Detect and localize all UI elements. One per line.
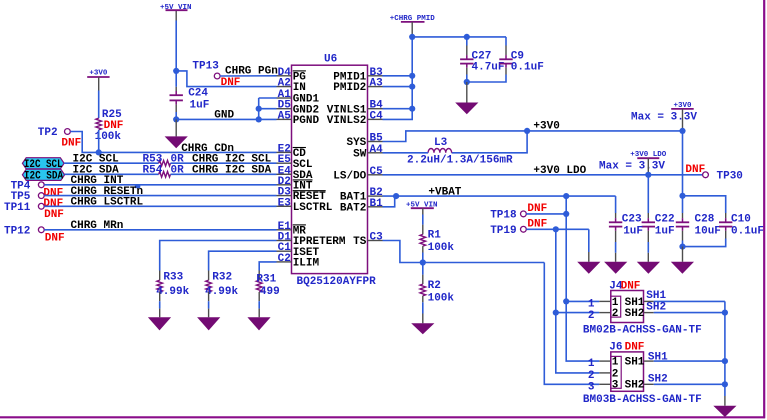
svg-text:C2: C2	[278, 253, 291, 265]
svg-text:E3: E3	[278, 197, 292, 209]
svg-text:1uF: 1uF	[190, 100, 210, 112]
wire LS/DO +3V0_LDO net	[383, 174, 703, 176]
schematic page border bottom	[0, 416, 765, 418]
svg-text:IN: IN	[293, 82, 306, 94]
svg-text:DNF: DNF	[685, 164, 705, 176]
wire C28/C10 bottoms join	[682, 231, 684, 241]
svg-text:TS: TS	[353, 236, 367, 248]
svg-text:+3V0: +3V0	[533, 121, 559, 133]
wire L3 output up to +3V0	[452, 131, 527, 153]
wire TS to divider	[383, 241, 545, 263]
junction dot +VBAT column	[563, 193, 569, 199]
test point TP13	[214, 73, 220, 79]
wire +3V0 power stem	[682, 109, 684, 131]
svg-text:GND: GND	[214, 110, 234, 122]
junction dot BAT join	[393, 193, 399, 199]
svg-text:TP19: TP19	[490, 225, 516, 237]
wire R53 to SCL pin	[171, 162, 277, 164]
wire +5V VIN down to C24	[175, 71, 177, 87]
junction dot J4 pin1	[563, 298, 569, 304]
ground symbol TP19 net	[577, 262, 600, 274]
junction dot R1/R2/TS	[420, 259, 426, 265]
ground symbol below R2	[411, 323, 434, 334]
wire R32 to ground	[208, 292, 210, 301]
wire J6 SH2 to right rail	[644, 383, 654, 385]
svg-text:2: 2	[612, 308, 619, 320]
resistor R2	[420, 284, 426, 296]
ground symbol below C23	[604, 262, 627, 274]
capacitor C24	[175, 91, 177, 95]
svg-text:100k: 100k	[428, 242, 455, 254]
junction dot TP19	[553, 226, 559, 232]
svg-text:SH2: SH2	[646, 302, 666, 314]
svg-text:SH2: SH2	[625, 380, 645, 392]
junction dot +3V0	[679, 128, 685, 134]
svg-text:TP13: TP13	[192, 61, 219, 73]
junction dot C27 bottom	[464, 79, 470, 85]
resistor R32	[206, 280, 212, 292]
resistor R33	[157, 280, 163, 292]
port I2C_SDA	[22, 169, 64, 180]
svg-text:BQ25120AYFPR: BQ25120AYFPR	[297, 276, 377, 288]
svg-text:J6: J6	[609, 341, 622, 353]
svg-text:CHRG LSCTRL: CHRG LSCTRL	[71, 197, 144, 209]
wire BAT1 +VBAT net	[383, 195, 616, 197]
svg-text:1: 1	[588, 299, 595, 311]
wire BAT2 up to BAT1	[383, 196, 395, 207]
svg-text:U6: U6	[324, 54, 337, 66]
wire C22 top stem	[647, 175, 649, 213]
svg-text:Max = 3.3V: Max = 3.3V	[599, 161, 665, 173]
ground symbol below R33	[148, 317, 171, 330]
junction dot +5V VIN	[173, 68, 179, 74]
svg-text:ILIM: ILIM	[293, 258, 320, 270]
wire +5V VIN rail top-left	[175, 11, 177, 21]
wire C27 top stem	[466, 37, 468, 46]
wire TP18 to +VBAT column	[526, 213, 566, 215]
wire C22 to ground	[647, 231, 649, 242]
svg-text:1uF: 1uF	[623, 225, 643, 237]
svg-text:0.1uF: 0.1uF	[731, 225, 764, 237]
svg-text:0.1uF: 0.1uF	[511, 61, 544, 73]
svg-text:L3: L3	[434, 137, 448, 149]
wire R1 to mid node	[422, 246, 424, 252]
wire R31 to ground	[258, 292, 260, 301]
svg-text:4.99k: 4.99k	[205, 286, 238, 298]
svg-text:SH1: SH1	[648, 351, 668, 363]
wire PMID2 branch	[383, 86, 413, 88]
wire J4 pin1 branch	[566, 300, 599, 302]
svg-text:R31: R31	[256, 274, 276, 286]
wire R33 to ground	[159, 292, 161, 301]
svg-text:TP30: TP30	[717, 170, 743, 182]
svg-text:1: 1	[612, 357, 619, 369]
svg-text:Max = 3.3V: Max = 3.3V	[631, 111, 697, 123]
test point TP4	[38, 182, 44, 188]
svg-text:R33: R33	[163, 271, 183, 283]
junction dot PMID2	[409, 84, 415, 90]
resistor R25	[96, 118, 102, 130]
svg-text:10uF: 10uF	[695, 225, 721, 237]
junction dot PMID rail top	[409, 34, 415, 40]
wire TS column down to J6 pin3	[544, 263, 599, 385]
wire R25 to CHRG CDn net	[98, 130, 100, 153]
ground symbol below C22	[637, 262, 660, 274]
test point TP11	[38, 203, 44, 209]
wire C24 bottom to GND net	[175, 105, 177, 112]
connector J6 BM03B-ACHSS-GAN-TF	[611, 352, 644, 391]
svg-text:DNF: DNF	[621, 281, 641, 293]
svg-text:A4: A4	[370, 144, 384, 156]
op-amp U6 BQ25120AYFPR body	[292, 65, 368, 273]
schematic page border right	[763, 0, 765, 418]
junction dot GND at GND-bridge	[256, 116, 262, 122]
svg-text:C24: C24	[188, 88, 208, 100]
ground symbol below C28	[682, 247, 684, 262]
wire +3V0 to R25	[98, 77, 100, 91]
wire R54 to SDA pin	[171, 173, 277, 175]
svg-text:B1: B1	[370, 198, 384, 210]
wire ILIM to R31	[259, 262, 276, 271]
svg-text:CHRG PGn: CHRG PGn	[225, 66, 278, 78]
svg-text:C28: C28	[695, 213, 715, 225]
wire PMID1 branch	[383, 75, 413, 77]
wire +3V0_LDO stem	[647, 158, 649, 175]
svg-text:SH2: SH2	[625, 308, 645, 320]
wire TP19 column down to J6 pin2	[556, 229, 600, 373]
wire ISET to R32	[209, 251, 277, 270]
svg-text:R32: R32	[212, 271, 232, 283]
junction dot R25 on CHRG CDn	[96, 149, 102, 155]
wire +VBAT down to C23	[615, 196, 617, 213]
svg-text:DNF: DNF	[221, 77, 241, 89]
svg-text:C5: C5	[370, 166, 384, 178]
junction dot C28 bottom	[679, 244, 685, 250]
capacitor C27	[466, 55, 468, 59]
test point TP19	[521, 226, 527, 232]
junction dot J4 pin2	[553, 310, 559, 316]
svg-text:3: 3	[588, 381, 595, 393]
junction dot GND2 bridge	[256, 106, 262, 112]
svg-text:DNF: DNF	[625, 341, 645, 353]
svg-text:2.2uH/1.3A/156mR: 2.2uH/1.3A/156mR	[407, 155, 513, 167]
svg-text:3: 3	[612, 380, 619, 392]
junction dot C28 top	[679, 193, 685, 199]
svg-text:2: 2	[588, 310, 595, 322]
test point TP5	[38, 193, 44, 199]
resistor R31	[256, 280, 262, 292]
wire I2C SDA to R54	[65, 173, 159, 175]
svg-text:LS/DO: LS/DO	[333, 170, 366, 182]
ground symbol below C27	[466, 82, 468, 103]
wire R2 to ground	[422, 296, 424, 303]
capacitor C9	[505, 55, 507, 59]
svg-text:SH1: SH1	[646, 290, 666, 302]
svg-text:BM02B-ACHSS-GAN-TF: BM02B-ACHSS-GAN-TF	[583, 325, 702, 337]
wire J4 pin2 branch	[556, 312, 600, 314]
junction dot C27 top	[464, 34, 470, 40]
capacitor C10	[725, 218, 727, 222]
svg-text:SYS: SYS	[346, 137, 366, 149]
wire C28 to C10 top	[683, 196, 726, 213]
wire +VBAT column down to J6 pin1	[566, 196, 599, 361]
wire J4 SH1 to right rail	[644, 300, 654, 302]
wire TP13 to PG pin	[220, 75, 276, 77]
wire +5V VIN to IN pin	[176, 71, 276, 87]
svg-text:+VBAT: +VBAT	[428, 187, 461, 199]
wire SW to L3	[383, 152, 429, 154]
svg-text:LSCTRL: LSCTRL	[293, 202, 333, 214]
wire TP19 across to ground drop	[526, 228, 589, 230]
junction dot SYS/L3 join	[524, 128, 530, 134]
svg-text:C3: C3	[370, 232, 384, 244]
svg-text:TP12: TP12	[4, 225, 30, 237]
wire J6 SH1 to right rail	[644, 360, 654, 362]
wire +5V VIN to R1	[422, 208, 424, 214]
inductor L3	[428, 149, 452, 153]
svg-text:1: 1	[588, 358, 595, 370]
wire mid node to R2	[422, 263, 424, 275]
ground symbol below C24	[175, 119, 177, 136]
pin stubs U6 left side	[277, 75, 292, 77]
svg-text:CHRG MRn: CHRG MRn	[71, 220, 124, 232]
svg-text:+3V0 LDO: +3V0 LDO	[533, 165, 586, 177]
svg-text:BM03B-ACHSS-GAN-TF: BM03B-ACHSS-GAN-TF	[583, 394, 702, 406]
connector J4 BM02B-ACHSS-GAN-TF	[611, 291, 644, 323]
svg-text:SH1: SH1	[625, 357, 645, 369]
wire J4 SH2 to right rail	[644, 312, 654, 314]
wire PMID top to capacitors C27 C9	[412, 36, 506, 38]
test point TP30	[703, 172, 709, 178]
junction dot PMID1	[409, 73, 415, 79]
resistor R53 0R	[159, 160, 171, 166]
svg-text:SH2: SH2	[648, 374, 668, 386]
wire +3V0 down to C28 rail	[682, 131, 684, 196]
junction dot J6 SH1	[722, 358, 728, 364]
svg-text:C4: C4	[370, 110, 384, 122]
wire C9 top stem	[505, 37, 507, 46]
svg-text:100k: 100k	[428, 293, 455, 305]
svg-text:SW: SW	[353, 148, 367, 160]
svg-text:B5: B5	[370, 133, 384, 145]
wire +CHRG PMID stem	[411, 22, 413, 37]
wire GND net to PGND pin	[176, 118, 276, 120]
svg-text:C23: C23	[622, 213, 642, 225]
junction dot TP18	[563, 211, 569, 217]
ground symbol below R32	[197, 317, 220, 330]
svg-text:R54: R54	[143, 164, 163, 176]
test point TP18	[521, 211, 527, 217]
wire C23 to ground	[615, 231, 617, 242]
capacitor C23	[615, 218, 617, 222]
wire VINLS1 branch	[383, 108, 413, 110]
svg-text:TP11: TP11	[4, 202, 31, 214]
svg-text:A2: A2	[278, 78, 291, 90]
svg-text:DNF: DNF	[44, 209, 64, 221]
resistor R1	[420, 234, 426, 246]
wire TP4 CHRG INT	[44, 184, 276, 186]
svg-text:DNF: DNF	[61, 137, 81, 149]
wire TP2 to CHRG CDn net	[70, 132, 276, 153]
junction dot VINLS1	[409, 106, 415, 112]
capacitor C22	[647, 218, 649, 222]
wire SYS to +3V0 rail	[383, 131, 683, 142]
wire TP5 CHRG RESETn	[44, 195, 276, 197]
svg-text:A5: A5	[278, 110, 292, 122]
wire I2C SCL to R53	[64, 162, 159, 164]
junction dot J6 SH2	[722, 381, 728, 387]
svg-text:C22: C22	[655, 213, 675, 225]
svg-text:TP2: TP2	[38, 127, 58, 139]
wire C27/C9 bottoms join	[466, 68, 468, 75]
svg-text:4.99k: 4.99k	[156, 286, 189, 298]
wire TP11 CHRG LSCTRL	[44, 205, 276, 207]
svg-text:2: 2	[588, 370, 595, 382]
wire TP19 net ground drop	[588, 229, 590, 252]
svg-text:TP18: TP18	[490, 209, 517, 221]
svg-text:VINLS2: VINLS2	[327, 115, 367, 127]
svg-text:C10: C10	[731, 213, 751, 225]
wire GND1/GND2 bridge	[258, 98, 260, 119]
wire SH right rail down to ground	[724, 301, 726, 396]
ground symbol bottom right	[713, 406, 736, 417]
port I2C_SCL	[22, 158, 64, 169]
ground symbol below R31	[247, 317, 270, 330]
svg-text:A3: A3	[370, 78, 384, 90]
svg-text:R1: R1	[428, 230, 442, 242]
junction dot J4 SH2	[722, 310, 728, 316]
svg-text:PMID2: PMID2	[333, 82, 366, 94]
svg-text:2: 2	[612, 368, 619, 380]
svg-text:1uF: 1uF	[655, 225, 675, 237]
wire C28 top stem	[682, 196, 684, 213]
test point TP2	[65, 129, 71, 135]
wire PMID vertical rail	[383, 37, 413, 120]
capacitor C28	[682, 218, 684, 222]
wire TP12 CHRG MRn	[44, 229, 276, 231]
svg-text:PGND: PGND	[293, 115, 320, 127]
junction dot GND net	[173, 116, 179, 122]
wire IPRETERM to R33	[160, 241, 277, 271]
svg-text:BAT2: BAT2	[340, 202, 366, 214]
resistor R54 0R	[159, 172, 171, 178]
svg-text:499: 499	[260, 286, 280, 298]
test point TP12	[38, 227, 44, 233]
pin stubs U6 right side	[368, 75, 383, 77]
junction dot +3V0_LDO / C22	[645, 172, 651, 178]
svg-text:CHRG I2C SDA: CHRG I2C SDA	[192, 164, 272, 176]
svg-text:DNF: DNF	[45, 233, 65, 245]
node blob on CHRG INT wire	[135, 185, 141, 188]
svg-text:R2: R2	[428, 280, 441, 292]
